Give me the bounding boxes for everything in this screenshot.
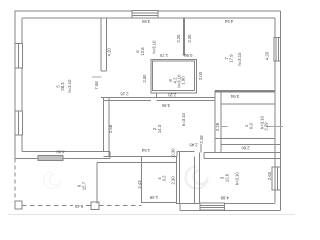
svg-text:2.58: 2.58	[108, 124, 113, 133]
svg-text:4.00: 4.00	[56, 149, 65, 154]
svg-text:h=3.10: h=3.10	[181, 112, 186, 126]
svg-text:3.2: 3.2	[162, 175, 167, 181]
svg-text:28.3: 28.3	[60, 82, 65, 91]
windows	[15, 11, 281, 211]
svg-text:0.30: 0.30	[170, 148, 175, 157]
window top room6	[132, 11, 158, 19]
jog line y151.6	[177, 151, 195, 153]
porch post 2	[91, 202, 99, 210]
watermark swirl A	[186, 167, 208, 189]
room 7 label	[224, 54, 234, 63]
wire bottom-left wall inner	[22, 151, 110, 153]
svg-text:14.3: 14.3	[157, 124, 162, 133]
room 8 inner box	[153, 61, 195, 91]
porch dashed bottom seg1	[22, 205, 73, 207]
wire left wall inner	[21, 18, 23, 152]
svg-text:2.00: 2.00	[198, 71, 203, 80]
room 3 label	[220, 173, 230, 182]
window right room3	[272, 167, 281, 190]
svg-text:h=3.10: h=3.10	[152, 40, 157, 54]
room 1 label	[244, 122, 254, 128]
svg-text:7.08: 7.08	[94, 81, 99, 90]
wall room6/room7 left line	[183, 18, 185, 55]
wire bottom-right wall left cap	[179, 203, 181, 210]
wall room2 top upper line	[101, 97, 215, 99]
wall room2 top lower line seg1	[104, 99, 152, 101]
window left lower room5	[15, 111, 22, 135]
room 2 label	[152, 124, 162, 133]
wall room2/room1 left line	[214, 90, 216, 152]
svg-text:3.94: 3.94	[230, 94, 239, 99]
room 9 label	[77, 181, 87, 190]
wall room5/room6 left line	[100, 18, 102, 71]
room 8 label	[168, 77, 178, 83]
svg-text:1.70: 1.70	[159, 53, 168, 58]
porch dashed left	[14, 158, 16, 201]
room 1 top edge line	[221, 103, 276, 105]
dim tick 2.29 right	[266, 126, 283, 128]
window bottom room5	[38, 155, 63, 160]
dimension texts horizontal (rotated 180)	[56, 19, 250, 209]
wall room5/room6 end cap	[101, 70, 107, 72]
wall room3 top lower line	[204, 157, 281, 159]
room 5 label	[55, 82, 65, 91]
wire top wall outer	[15, 10, 281, 12]
wall room6/room7 end cap	[183, 54, 186, 56]
svg-text:2.43: 2.43	[137, 180, 142, 189]
wall room3 left inner line	[199, 153, 201, 204]
svg-text:12.8: 12.8	[140, 47, 145, 56]
svg-text:6.0: 6.0	[249, 122, 254, 128]
vestibule top / room4 inner top	[97, 161, 176, 163]
vestibule left wall	[96, 162, 98, 203]
svg-text:2.20: 2.20	[167, 92, 176, 97]
room 4 label	[157, 175, 167, 181]
svg-text:4.54: 4.54	[224, 19, 233, 24]
door jamb room3 top	[200, 144, 202, 153]
window bottom room3	[200, 203, 225, 210]
wall room3 top upper line	[204, 152, 281, 154]
wall room1/room3 lower line	[221, 144, 281, 146]
room 6 label	[135, 47, 145, 56]
wire bottom-left wall outer	[15, 157, 110, 159]
svg-text:2.20: 2.20	[187, 34, 192, 43]
wall room5/room6 right line	[106, 18, 108, 71]
svg-text:6.45: 6.45	[74, 204, 83, 209]
wire bottom-right wall outer	[180, 209, 281, 211]
porch post 1	[15, 201, 22, 209]
svg-text:2.29: 2.29	[215, 122, 220, 131]
wall room5/room2 right line	[108, 98, 110, 157]
svg-text:h=3.10: h=3.10	[237, 52, 242, 66]
jog vertical	[176, 152, 178, 157]
dimension texts vertical (rotated -90)	[94, 34, 272, 189]
room labels (rotated -90, number + area)	[55, 40, 264, 190]
faint ground line	[8, 214, 295, 216]
svg-text:1.90: 1.90	[181, 76, 186, 85]
wall room5/room2 left line	[103, 98, 105, 152]
svg-text:12.6: 12.6	[224, 173, 229, 182]
wall room2 top lower line seg2	[156, 99, 215, 101]
wire right wall inner	[274, 18, 276, 204]
dim tick 2.29 left	[221, 125, 228, 127]
svg-text:4.88: 4.88	[220, 195, 229, 200]
corridor left line	[179, 152, 181, 204]
svg-text:4.20: 4.20	[264, 51, 269, 60]
svg-text:2.30: 2.30	[171, 176, 176, 185]
svg-text:2.00: 2.00	[142, 74, 147, 83]
door jamb room8	[155, 93, 157, 98]
svg-text:2.28: 2.28	[199, 135, 204, 144]
room 4 left wall	[141, 156, 143, 203]
wall room3 left outer line	[194, 156, 196, 203]
svg-text:h=3.10: h=3.10	[67, 79, 72, 93]
room 8 outer box	[151, 59, 196, 93]
svg-text:0.90: 0.90	[184, 53, 193, 58]
wall room3 top left cap	[203, 153, 205, 159]
svg-text:3.90: 3.90	[161, 103, 170, 108]
svg-text:h=3.10: h=3.10	[260, 115, 265, 129]
svg-text:4.20: 4.20	[107, 48, 112, 57]
svg-text:2.16: 2.16	[120, 92, 129, 97]
wire top wall inner	[22, 17, 275, 19]
svg-text:3.90: 3.90	[141, 19, 150, 24]
svg-text:15.7: 15.7	[81, 181, 86, 190]
svg-text:1.54: 1.54	[141, 148, 150, 153]
room 4 right wall	[175, 156, 177, 203]
wall room7/room1 upper line	[215, 90, 275, 92]
svg-text:2.60: 2.60	[267, 171, 272, 180]
dim tick 7.08	[92, 76, 102, 78]
svg-text:1.39: 1.39	[149, 195, 158, 200]
svg-text:2.45: 2.45	[189, 143, 198, 148]
threshold line room2 bottom	[104, 155, 178, 157]
svg-text:h=3.10: h=3.10	[235, 172, 240, 186]
window left upper room5	[15, 44, 22, 68]
room 4 bottom line	[142, 202, 177, 204]
wire bottom-right wall inner	[176, 202, 275, 204]
wire bottom-left wall cap	[109, 152, 111, 159]
svg-text:2.20: 2.20	[176, 34, 181, 43]
porch dashed bottom seg2	[99, 205, 142, 207]
svg-text:17.9: 17.9	[229, 54, 234, 63]
wire right wall outer	[280, 11, 282, 210]
svg-text:2.60: 2.60	[241, 145, 250, 150]
watermark swirl B	[44, 172, 61, 189]
wall room2/room1 right line	[220, 92, 222, 153]
wire left wall outer	[14, 11, 16, 159]
wall room1/room3 upper line	[215, 138, 275, 140]
window right room7	[274, 38, 281, 61]
